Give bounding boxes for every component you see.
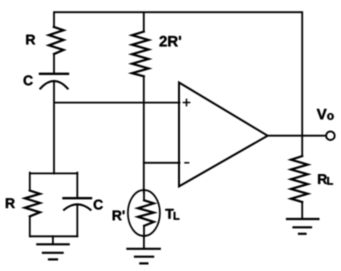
op-amp minus sign (185, 162, 189, 164)
wire noninverting input (node A) (54, 102, 179, 104)
label R (bottom left) (6, 198, 15, 208)
label RL subscript L (327, 177, 333, 185)
label C (top) (24, 75, 33, 85)
label R' (113, 211, 125, 221)
resistor R1 (top left R) (49, 27, 64, 54)
wire 2R' down to lamp (143, 76, 145, 192)
label 2R' (160, 36, 181, 46)
wire R1 to C1 (53, 54, 55, 73)
ground (middle) (127, 249, 159, 264)
resistor 2R' (132, 32, 149, 77)
wire ground stub left (52, 236, 54, 243)
wire ground stub middle (143, 237, 145, 249)
wire 2R' top lead (143, 13, 145, 32)
ground (left) (37, 244, 68, 259)
wire C1 down to parallel RC (53, 81, 55, 173)
output terminal circle (326, 131, 335, 140)
wire top rail with corner leads (54, 12, 302, 156)
wire inverting input (144, 162, 180, 164)
wire loop right upper (76, 173, 78, 197)
capacitor C1 top plate (40, 73, 68, 75)
label TL subscript L (174, 212, 180, 220)
op-amp plus sign (183, 99, 189, 105)
wire loop right lower (76, 206, 78, 237)
label C (bottom) (94, 200, 103, 210)
capacitor C2 top plate (64, 197, 92, 199)
resistor RL (291, 156, 308, 202)
wire lamp inner bottom lead (143, 226, 145, 237)
ground (right) (287, 219, 318, 234)
capacitor C1 curved plate (40, 81, 67, 89)
label R (top) (26, 35, 35, 45)
wire lamp inner top lead (143, 192, 145, 200)
label Vo letter V (317, 109, 327, 119)
label TL letter T (165, 209, 173, 219)
resistor R2 (bottom left R) (25, 191, 40, 217)
wire loop left upper (29, 173, 31, 191)
lamp TL envelope (128, 190, 160, 236)
wire loop left lower (29, 216, 31, 236)
wire RL to ground (301, 202, 303, 218)
wire parallel-loop top (30, 172, 77, 174)
label RL letter R (318, 174, 327, 184)
label Vo subscript o (327, 113, 333, 120)
resistor R' (inside lamp) (138, 200, 154, 226)
capacitor C2 curved plate (64, 204, 91, 210)
op-amp U1 triangle (179, 83, 268, 187)
wire output (268, 135, 327, 137)
wire loop bottom (30, 235, 77, 237)
